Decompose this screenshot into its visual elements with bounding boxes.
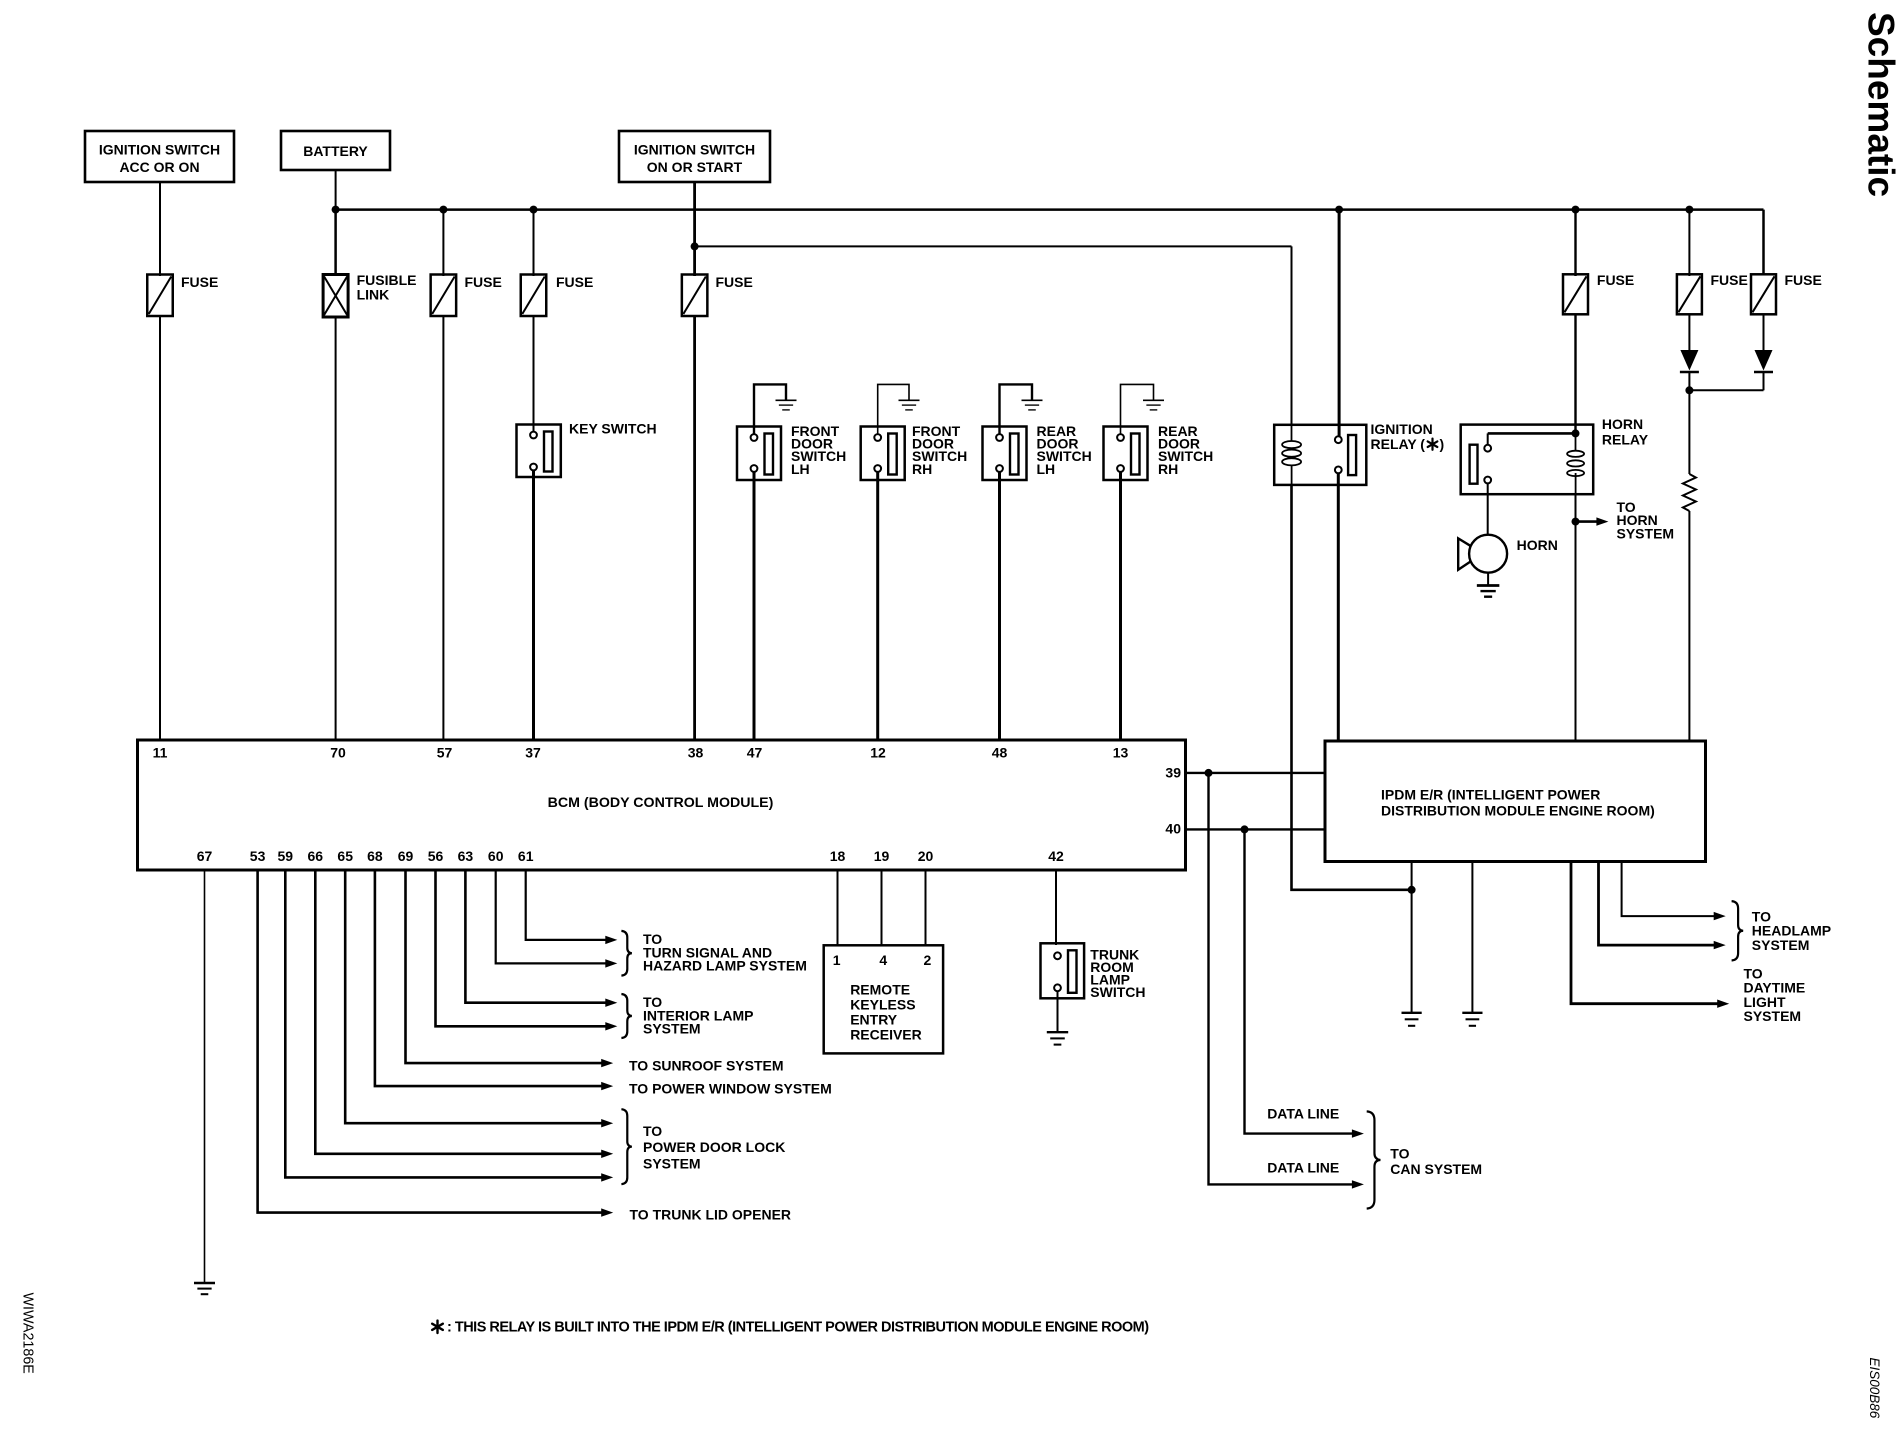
svg-text:37: 37 [525,745,541,761]
wire: trunk room lamp switch to ground [1057,991,1059,1032]
ignition relay contact terminals [1335,436,1342,443]
svg-text:KEY SWITCH: KEY SWITCH [569,421,657,437]
wire: ignition ON to branch junction [693,182,696,246]
svg-text:SYSTEM: SYSTEM [643,1021,701,1037]
svg-text:63: 63 [458,848,474,864]
svg-text:FUSE: FUSE [465,274,502,290]
wire+arrow: BCM 53 to trunk lid opener [258,870,605,1213]
svg-text:FUSE: FUSE [181,274,218,290]
wire: diode D1 to junction [1688,373,1690,390]
wire: BCM 20 to receiver pin 2 [925,870,927,945]
wire: diode D2 to junction [1689,389,1763,391]
svg-text:57: 57 [437,745,453,761]
svg-text:65: 65 [337,848,353,864]
wire: ignition ON branch bus [695,245,1292,247]
wire: fuse F2 to BCM pin 57 [442,315,444,740]
wire: bus corner down to right fuse [1762,210,1765,275]
svg-text:RELAY: RELAY [1602,432,1649,448]
svg-text:IGNITION SWITCH: IGNITION SWITCH [634,142,755,158]
svg-text:70: 70 [330,745,346,761]
svg-text:SYSTEM: SYSTEM [643,1155,701,1171]
module box: BCM [138,740,1186,870]
svg-text:RH: RH [912,461,932,477]
fuse F6 [1677,274,1702,314]
wire: diode D2 down [1763,373,1765,390]
wire: bus to fuse F3 [533,210,535,276]
svg-text:FUSE: FUSE [556,274,593,290]
svg-text:13: 13 [1113,745,1129,761]
wire+arrow: BCM 56 to interior lamp [436,870,609,1026]
svg-text:2: 2 [924,952,932,968]
horn relay internal link [1488,432,1576,435]
wire: bus to ignition relay contact [1338,210,1341,437]
svg-text:56: 56 [428,848,444,864]
front door switch LH [737,427,781,481]
wire: fusible link to BCM pin 70 [335,316,337,740]
wire: fuse F4 to BCM pin 38 [693,315,696,740]
svg-text:: THIS RELAY IS BUILT INTO THE: : THIS RELAY IS BUILT INTO THE IPDM E/R … [447,1320,1149,1336]
power source box: IGNITION SWITCH ON OR START [619,131,770,182]
svg-text:CAN SYSTEM: CAN SYSTEM [1390,1161,1482,1177]
wire+arrow: IPDM to headlamp system 2 [1599,862,1717,946]
wire: horn system node to IPDM [1575,522,1577,741]
wire: front door switch LH to ground [754,384,786,434]
diode D1 [1680,350,1698,371]
ground: horn [1477,584,1500,587]
svg-text:61: 61 [518,848,534,864]
wire: fuse F3 to key switch [533,315,535,433]
ground: IPDM 1 [1402,1012,1422,1014]
svg-text:RELAY (: RELAY ( [1371,436,1426,452]
svg-text:EIS00B86: EIS00B86 [1867,1358,1882,1419]
ignition relay contact bar [1348,435,1356,475]
svg-text:LINK: LINK [357,287,390,303]
wire: branch bus down to ignition relay coil [1291,246,1293,425]
svg-text:FUSE: FUSE [1711,272,1748,288]
key switch [517,425,561,478]
wire: ignition relay coil to IPDM ground net [1292,484,1412,890]
svg-text:1: 1 [833,952,841,968]
fuse F7 [1751,274,1776,314]
svg-text:40: 40 [1165,821,1181,837]
junction: bus to horn relay fuse [1572,206,1580,214]
wire: IPDM to ground 2 [1471,862,1473,1013]
module box: remote keyless entry receiver [824,945,943,1053]
trunk room lamp switch [1041,943,1085,998]
diode D2 [1755,350,1773,371]
svg-text:SYSTEM: SYSTEM [1617,525,1675,541]
junction: horn system tap [1572,518,1580,526]
svg-text:48: 48 [992,745,1008,761]
svg-text:LH: LH [791,461,810,477]
ignition relay box [1274,425,1366,485]
brace: turn signal group [621,931,631,976]
svg-text:POWER DOOR LOCK: POWER DOOR LOCK [643,1139,785,1155]
wire: fuse F7 to diode D2 [1763,314,1765,350]
wire+arrow: BCM 61 to turn signal system [526,870,609,940]
svg-text:ACC OR ON: ACC OR ON [119,159,199,175]
junction: CAN data line 1 tap [1205,769,1213,777]
wire: bus to fuse F6 [1688,210,1690,276]
wire: BCM pin 39 to IPDM [1186,772,1326,774]
svg-text:68: 68 [367,848,383,864]
wire: data line 2 (pin 39 tap) to CAN [1209,773,1355,1185]
wire: horn to ground [1487,573,1489,586]
power source box: IGNITION SWITCH ACC OR ON [85,131,234,182]
svg-text:12: 12 [870,745,886,761]
svg-text:TO: TO [1390,1146,1409,1162]
wire+arrow: BCM 59 to power door lock [285,870,604,1177]
svg-text:SWITCH: SWITCH [1090,984,1145,1000]
wire: IPDM to ground 1 [1411,862,1413,1013]
wire: BCM 42 to trunk room lamp switch [1055,870,1057,945]
wire+arrow: IPDM to headlamp system 1 [1622,862,1717,917]
svg-text:18: 18 [830,848,846,864]
junction: bus to lamp fuse [1685,206,1693,214]
wire: bus to horn fuse F5 [1574,210,1576,276]
svg-text:RH: RH [1158,461,1178,477]
wire: rear door switch RH to BCM pin 13 [1119,472,1122,740]
fuse F3 [521,275,547,317]
svg-text:20: 20 [918,848,934,864]
horn body [1469,535,1507,573]
svg-text:66: 66 [308,848,324,864]
wire: branch junction to fuse F4 [693,246,696,276]
wire: rear door switch RH to ground [1121,384,1154,434]
wire: key switch to BCM pin 37 [532,470,535,740]
brace: CAN system group [1367,1111,1381,1208]
svg-text:TO POWER WINDOW SYSTEM: TO POWER WINDOW SYSTEM [629,1081,832,1097]
wire: ignition relay contact to IPDM [1337,474,1340,742]
resistor [1683,474,1696,511]
wire+arrow: BCM 66 to power door lock [315,870,604,1154]
horn relay box [1461,425,1594,495]
wire: battery supply bus [336,208,1764,211]
svg-text:TO SUNROOF SYSTEM: TO SUNROOF SYSTEM [629,1057,784,1073]
svg-text:REMOTE: REMOTE [850,982,910,998]
junction: battery at bus [332,206,340,214]
svg-text:IGNITION SWITCH: IGNITION SWITCH [99,142,220,158]
svg-text:DATA LINE: DATA LINE [1267,1160,1339,1176]
wire: fuse F1 to BCM pin 11 [159,315,161,740]
svg-text:IGNITION: IGNITION [1371,421,1433,437]
wire: front door switch RH to BCM pin 12 [876,472,879,740]
wire: fuse F6 to diode D1 [1688,314,1690,350]
horn relay contact bar [1470,445,1478,484]
wire: rear door switch LH to ground [1000,384,1033,434]
junction: bus to fuse 37 [530,206,538,214]
brace: headlamp group [1732,901,1744,960]
fuse F4 [682,275,708,317]
wire+arrow: BCM 69 to sunroof system [406,870,605,1063]
brace: interior lamp group [621,994,631,1038]
wire: BCM pin 40 to IPDM [1186,828,1326,830]
svg-text:4: 4 [879,952,887,968]
svg-text:39: 39 [1165,765,1181,781]
svg-text:DISTRIBUTION MODULE ENGINE ROO: DISTRIBUTION MODULE ENGINE ROOM) [1381,803,1655,819]
wire: horn relay contact to horn [1487,484,1489,536]
svg-text:60: 60 [488,848,504,864]
brace: power door lock group [621,1109,631,1184]
wire: resistor to IPDM [1688,511,1690,741]
junction: ignition switch at branch bus [691,242,699,250]
wire: fuse F5 to horn relay [1574,314,1576,433]
svg-text:69: 69 [398,848,414,864]
horn relay coil [1567,451,1584,457]
wire: battery to bus [335,170,337,210]
note: relay built into IPDM [436,1321,438,1333]
svg-text:42: 42 [1048,848,1064,864]
wire: BCM 18 to receiver pin 1 [837,870,839,945]
wire: front door switch LH to BCM pin 47 [753,472,756,740]
ground: BCM pin 67 [194,1282,215,1284]
svg-text:WIWA2186E: WIWA2186E [20,1293,36,1374]
fuse F2 [431,275,457,317]
svg-text:67: 67 [197,848,213,864]
svg-text:59: 59 [278,848,294,864]
ground: trunk room lamp switch [1047,1031,1068,1033]
svg-text:RECEIVER: RECEIVER [850,1026,922,1042]
horn relay contact terminals [1484,445,1491,452]
net arrow: TO HORN SYSTEM [1576,520,1600,523]
wire: BCM 19 to receiver pin 4 [881,870,883,945]
svg-text:Schematic: Schematic [1861,12,1902,197]
svg-text:HORN: HORN [1517,537,1558,553]
svg-text:): ) [1440,436,1445,452]
svg-text:19: 19 [874,848,890,864]
svg-text:TO TRUNK LID OPENER: TO TRUNK LID OPENER [630,1207,792,1223]
ignition relay coil [1282,441,1301,448]
fuse F5 [1563,274,1588,314]
svg-text:KEYLESS: KEYLESS [850,997,915,1013]
wire: front door switch RH to ground [878,384,909,434]
fuse F1 (ACC) [147,275,173,317]
svg-text:IPDM E/R (INTELLIGENT POWER: IPDM E/R (INTELLIGENT POWER [1381,787,1600,803]
svg-text:HORN: HORN [1602,416,1643,432]
wire+arrow: BCM 63 to interior lamp [465,870,608,1003]
front door switch RH [861,427,905,481]
wire: BCM pin 67 to ground [204,870,206,1283]
svg-text:FUSE: FUSE [716,274,753,290]
svg-text:53: 53 [250,848,266,864]
ground: rear door switch RH [1143,399,1164,401]
wire: bus to fuse F2 [442,210,444,276]
ground: IPDM 2 [1462,1012,1482,1014]
svg-text:TO: TO [643,1123,662,1139]
junction: ignition relay coil ground tie [1408,886,1416,894]
wire: rear door switch LH to BCM pin 48 [998,472,1001,740]
horn speaker cone [1458,538,1470,569]
svg-text:FUSE: FUSE [1597,272,1634,288]
svg-text:LH: LH [1037,461,1056,477]
svg-text:SYSTEM: SYSTEM [1752,937,1810,953]
wire: horn relay to horn-system node [1575,493,1577,522]
fusible link FL [323,275,348,318]
svg-text:HAZARD LAMP SYSTEM: HAZARD LAMP SYSTEM [643,958,807,974]
junction: bus to fuse 57 [439,206,447,214]
svg-text:DATA LINE: DATA LINE [1267,1105,1339,1121]
ground: rear door switch LH [1022,399,1043,401]
junction: CAN data line 2 tap [1241,825,1249,833]
wire: ignition ACC to fuse [159,182,161,276]
wire: data line 1 (pin 40 tap) to CAN [1245,829,1355,1133]
rear door switch RH [1104,427,1148,481]
wire+arrow: IPDM to daytime light system [1571,862,1720,1004]
svg-text:FUSE: FUSE [1785,272,1822,288]
power source box: BATTERY [281,131,390,170]
wire+arrow: BCM 60 to hazard lamp system [496,870,609,963]
svg-text:47: 47 [747,745,763,761]
junction: horn relay coil feed [1572,429,1580,437]
svg-text:ON OR START: ON OR START [647,159,743,175]
ground: front door switch RH [899,399,920,401]
svg-text:ENTRY: ENTRY [850,1011,898,1027]
svg-text:BATTERY: BATTERY [303,143,368,159]
wire+arrow: BCM 68 to power window system [375,870,604,1086]
module box: IPDM E/R [1325,741,1706,862]
wire+arrow: BCM 65 to power door lock [345,870,604,1123]
wire: bus to fusible link [334,210,337,276]
ground: front door switch LH [776,399,797,401]
wire: junction to resistor [1688,390,1690,474]
rear door switch LH [983,427,1027,481]
svg-text:BCM (BODY CONTROL MODULE): BCM (BODY CONTROL MODULE) [548,795,774,811]
svg-text:11: 11 [153,745,168,761]
junction: bus to ignition relay feed [1335,206,1343,214]
svg-text:38: 38 [688,745,704,761]
svg-text:SYSTEM: SYSTEM [1744,1008,1802,1024]
junction: diode outputs [1685,386,1693,394]
